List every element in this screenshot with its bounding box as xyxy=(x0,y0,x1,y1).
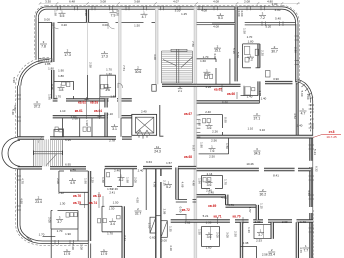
lower bath partition x62.5 xyxy=(62,118,64,137)
svg-text:3.00: 3.00 xyxy=(225,232,229,238)
wall entrance corridor left xyxy=(155,169,157,258)
svg-text:2.30: 2.30 xyxy=(282,220,288,224)
svg-text:2.58: 2.58 xyxy=(262,253,268,257)
svg-text:кв.61: кв.61 xyxy=(75,109,83,113)
room label 3/37.2 xyxy=(34,100,41,108)
svg-text:1.80: 1.80 xyxy=(248,39,254,43)
svg-text:1.50: 1.50 xyxy=(107,187,113,191)
wall exterior bottom step xyxy=(88,241,90,258)
wall y204.9 xyxy=(226,205,257,207)
svg-text:17.3: 17.3 xyxy=(101,54,108,58)
svg-text:1.50: 1.50 xyxy=(225,143,229,149)
svg-text:3.3: 3.3 xyxy=(205,73,210,77)
room label 2/25.4 xyxy=(268,248,275,256)
svg-text:2.53: 2.53 xyxy=(256,238,262,242)
svg-text:5.3: 5.3 xyxy=(218,16,223,20)
room 15.1 right wall low xyxy=(229,59,231,84)
svg-text:2.20: 2.20 xyxy=(260,50,264,56)
svg-text:17.3: 17.3 xyxy=(64,53,71,57)
door quarter-arc room17.3-1 xyxy=(52,22,59,29)
svg-text:4.9: 4.9 xyxy=(70,181,75,185)
shaft hatch right of spine xyxy=(197,115,201,137)
shaft box x258 wall xyxy=(255,49,259,55)
room label 1/3.4 xyxy=(109,218,116,226)
svg-text:7.6: 7.6 xyxy=(210,149,215,153)
svg-text:1.25: 1.25 xyxy=(181,12,187,16)
wall exterior left mid xyxy=(18,86,20,138)
room label 1/4.9 xyxy=(69,177,76,185)
dashed contour left lower xyxy=(16,169,89,246)
svg-text:1.70: 1.70 xyxy=(107,232,113,236)
svg-text:1.57: 1.57 xyxy=(166,161,172,165)
svg-text:1.98: 1.98 xyxy=(126,177,130,183)
wall exterior bottom-left corner arc xyxy=(18,225,43,244)
door quarter-arc corridor xyxy=(39,137,45,143)
svg-text:2.40: 2.40 xyxy=(141,109,147,113)
wall y200 entrance hall xyxy=(176,200,196,203)
svg-text:5.90: 5.90 xyxy=(12,77,16,83)
loggia hatch band xyxy=(38,59,52,62)
svg-text:2.26: 2.26 xyxy=(212,130,218,134)
fixtures bath room30.7 xyxy=(245,87,255,95)
svg-text:1.68: 1.68 xyxy=(258,90,262,96)
svg-text:3.6: 3.6 xyxy=(105,88,110,92)
svg-text:5.00: 5.00 xyxy=(44,18,50,22)
room label 3/34.3 xyxy=(254,147,261,155)
svg-text:17.9: 17.9 xyxy=(64,252,71,256)
svg-text:2.00: 2.00 xyxy=(47,217,51,223)
bath box bottom-2 xyxy=(240,246,256,258)
wall stairwell left xyxy=(156,8,158,84)
bath box room30.7 xyxy=(243,86,245,96)
svg-text:1.55: 1.55 xyxy=(147,223,151,229)
svg-text:1.60: 1.60 xyxy=(200,59,206,63)
svg-text:4.00: 4.00 xyxy=(275,8,281,12)
svg-text:4.48: 4.48 xyxy=(191,180,195,186)
wall vert x258 upper xyxy=(258,44,260,96)
bath box B walls xyxy=(100,75,116,97)
svg-text:1.98: 1.98 xyxy=(85,120,89,126)
svg-text:4.7: 4.7 xyxy=(142,15,147,19)
door quarter-arc room17.3-2 left xyxy=(108,22,115,29)
svg-text:9.63: 9.63 xyxy=(146,160,152,164)
wall hall top y84 xyxy=(197,84,241,86)
dashed contour top-right xyxy=(282,5,299,81)
svg-text:30.2: 30.2 xyxy=(259,192,266,196)
window ticks left wall xyxy=(17,95,21,210)
svg-text:кв.68: кв.68 xyxy=(184,155,192,159)
wall exterior right gray pier upper xyxy=(296,24,298,81)
stair window left xyxy=(152,85,156,92)
svg-text:2.14: 2.14 xyxy=(207,172,213,176)
svg-text:30.7: 30.7 xyxy=(271,49,278,53)
svg-text:5.40: 5.40 xyxy=(275,17,281,21)
svg-text:2.00: 2.00 xyxy=(134,177,138,183)
wall x240 bottom xyxy=(240,222,242,258)
red leader ticks кв65-66 xyxy=(222,84,237,99)
entrance ramp outer xyxy=(150,217,156,233)
svg-text:5.2: 5.2 xyxy=(166,185,171,189)
svg-text:4.07: 4.07 xyxy=(173,0,179,4)
svg-text:1.50: 1.50 xyxy=(134,23,140,27)
svg-text:1.70: 1.70 xyxy=(57,229,63,233)
svg-text:кв.65: кв.65 xyxy=(214,87,222,91)
svg-text:0.90: 0.90 xyxy=(116,10,120,16)
svg-text:4.61: 4.61 xyxy=(221,195,227,199)
svg-text:4.08: 4.08 xyxy=(213,25,219,29)
svg-text:1.85: 1.85 xyxy=(45,62,51,66)
wall x271 bottom xyxy=(271,222,273,239)
svg-text:2.00: 2.00 xyxy=(215,232,219,238)
svg-text:1.10: 1.10 xyxy=(60,109,66,113)
svg-text:1.96: 1.96 xyxy=(197,178,201,184)
wall vert x175.8 vestibule xyxy=(176,168,179,200)
svg-text:15.1: 15.1 xyxy=(214,49,221,53)
wall x146 room32.7 right xyxy=(145,169,147,210)
bath 3.3 top-right box xyxy=(197,59,216,84)
svg-text:1.90: 1.90 xyxy=(58,69,64,73)
svg-text:2.40: 2.40 xyxy=(70,167,76,171)
svg-text:2.00: 2.00 xyxy=(272,2,278,6)
wall corridor top right-block xyxy=(197,101,260,103)
svg-text:7.51: 7.51 xyxy=(122,65,126,71)
svg-text:2.50: 2.50 xyxy=(234,231,238,237)
wall stairwell bottom xyxy=(162,84,197,86)
svg-text:кв.62: кв.62 xyxy=(78,101,86,105)
svg-text:кв.75: кв.75 xyxy=(73,201,81,205)
svg-text:1.50: 1.50 xyxy=(109,207,115,211)
bath box A walls xyxy=(54,81,74,98)
svg-text:1.90: 1.90 xyxy=(84,178,88,184)
svg-text:2.78: 2.78 xyxy=(109,139,115,143)
elevator shaft xyxy=(132,114,157,138)
room label 2/30.2 xyxy=(259,188,266,196)
fixture room 4.2 xyxy=(107,173,110,177)
wall exterior top xyxy=(47,7,283,9)
room label 1/3.6 xyxy=(206,122,213,130)
red leader ticks кв73-74 xyxy=(85,192,104,208)
svg-text:1.40: 1.40 xyxy=(247,95,253,99)
red leader ticks corridor xyxy=(85,97,102,119)
svg-text:7.2: 7.2 xyxy=(248,58,253,62)
room label 2/30.7 xyxy=(271,45,278,53)
svg-text:2.1: 2.1 xyxy=(178,89,182,93)
svg-text:1.80: 1.80 xyxy=(48,67,54,71)
room label 1/3.3 xyxy=(203,68,210,76)
stair-left vestibule box xyxy=(54,130,64,137)
svg-text:1.08: 1.08 xyxy=(80,244,84,250)
wall room30.7 bottom xyxy=(265,81,297,83)
svg-text:3.6: 3.6 xyxy=(207,183,212,187)
svg-text:2.58: 2.58 xyxy=(88,62,92,68)
fixtures bath 3.4 xyxy=(98,216,121,223)
svg-text:4.50: 4.50 xyxy=(136,197,140,203)
svg-text:3.6: 3.6 xyxy=(207,126,212,130)
svg-text:3.10: 3.10 xyxy=(259,128,265,132)
svg-text:кв.69: кв.69 xyxy=(208,204,216,208)
bay arc mullion ticks xyxy=(298,81,315,126)
wall vert x118.5-121 xyxy=(119,9,122,118)
svg-text:37.1: 37.1 xyxy=(253,117,260,121)
bath 3.7 box xyxy=(51,211,78,258)
svg-text:1.10: 1.10 xyxy=(107,112,113,116)
svg-text:6.32: 6.32 xyxy=(315,166,319,172)
wall corridor left top xyxy=(53,99,132,101)
svg-text:6.95: 6.95 xyxy=(65,138,71,142)
svg-text:0.60: 0.60 xyxy=(150,236,156,240)
room label 1/3.1 xyxy=(111,123,118,131)
svg-text:24.3: 24.3 xyxy=(154,149,161,153)
wall stair bottom y167 xyxy=(18,167,86,169)
wall exterior left upper xyxy=(36,17,38,59)
room 4.9 box xyxy=(59,171,88,192)
svg-text:11: 11 xyxy=(156,145,159,149)
wall y204 hall xyxy=(79,204,88,206)
svg-text:25.4: 25.4 xyxy=(268,253,275,257)
wall exterior top-left corner arc xyxy=(36,7,47,17)
svg-text:3.00: 3.00 xyxy=(102,23,108,27)
svg-text:10.46: 10.46 xyxy=(246,162,254,166)
svg-text:1.90: 1.90 xyxy=(65,232,71,236)
svg-text:3.08: 3.08 xyxy=(100,0,106,4)
svg-text:6.48: 6.48 xyxy=(69,0,75,4)
wall exterior right upper xyxy=(296,23,298,82)
wall stair-lobby y137 xyxy=(18,137,132,139)
svg-text:2.41: 2.41 xyxy=(109,191,115,195)
svg-text:1.36: 1.36 xyxy=(247,227,251,233)
room label 1/7.2 xyxy=(247,53,254,61)
svg-text:кв.76: кв.76 xyxy=(73,194,81,198)
room label 1/7.7 xyxy=(302,244,309,252)
svg-text:10-7-25: 10-7-25 xyxy=(326,135,337,139)
svg-text:2.08: 2.08 xyxy=(244,0,250,4)
svg-text:3.7: 3.7 xyxy=(258,233,263,237)
svg-text:5.90: 5.90 xyxy=(300,91,304,97)
svg-text:0.90: 0.90 xyxy=(213,54,217,60)
svg-text:3.68: 3.68 xyxy=(134,0,140,4)
svg-text:7.31: 7.31 xyxy=(123,235,127,241)
svg-text:1.80: 1.80 xyxy=(200,142,204,148)
svg-text:2.36: 2.36 xyxy=(112,187,118,191)
svg-text:7.00: 7.00 xyxy=(71,244,75,250)
svg-text:1.15: 1.15 xyxy=(260,203,264,209)
svg-text:0.00: 0.00 xyxy=(161,239,167,243)
svg-text:кв.74: кв.74 xyxy=(89,201,97,205)
svg-text:4.70: 4.70 xyxy=(21,178,25,184)
fixtures bath A xyxy=(62,82,70,87)
room label 2/32.7 xyxy=(135,207,142,215)
hall walls y194.6 block xyxy=(197,195,226,197)
svg-text:8.41: 8.41 xyxy=(273,174,279,178)
svg-text:эт.8: эт.8 xyxy=(329,130,335,134)
room label 11/24.3 xyxy=(154,145,161,153)
svg-text:2.46: 2.46 xyxy=(114,169,120,173)
svg-text:3.90: 3.90 xyxy=(306,94,310,100)
room label 3/37.1 xyxy=(253,112,260,120)
svg-text:5.21: 5.21 xyxy=(203,214,209,218)
window ticks top wall xyxy=(58,6,265,10)
svg-text:1.98: 1.98 xyxy=(54,10,58,16)
wall exterior bay arc xyxy=(295,80,313,102)
svg-text:1.58: 1.58 xyxy=(243,28,247,34)
room label 1/7.9 xyxy=(110,9,117,17)
staircase upper (flights with treads) xyxy=(162,49,193,83)
svg-text:5.20: 5.20 xyxy=(265,24,271,28)
svg-text:7.9: 7.9 xyxy=(111,13,116,17)
svg-text:1.35: 1.35 xyxy=(168,226,172,232)
room label 1/3.6 xyxy=(206,231,213,239)
window ticks right wall xyxy=(295,36,314,232)
svg-text:3.30: 3.30 xyxy=(45,0,51,4)
svg-text:3.7: 3.7 xyxy=(57,220,62,224)
bath 3.6 bottom box xyxy=(202,227,220,247)
wall mid right-block xyxy=(197,135,313,138)
room 4.2 box xyxy=(105,169,133,187)
wall vert x52.7 left block xyxy=(52,22,54,98)
svg-text:5.90: 5.90 xyxy=(222,101,228,105)
floor stamp эт.8 xyxy=(313,130,341,139)
svg-text:2.56: 2.56 xyxy=(211,139,217,143)
staircase left (flights with treads) xyxy=(34,139,63,166)
room label 1/17.9 xyxy=(101,248,108,256)
wall corridor bottom right-block xyxy=(197,168,311,171)
bath B door arc xyxy=(118,83,123,88)
svg-text:32.7: 32.7 xyxy=(135,212,142,216)
svg-text:3.1: 3.1 xyxy=(112,127,117,131)
svg-text:1.70: 1.70 xyxy=(223,179,227,185)
window ticks bl-arc xyxy=(27,237,33,243)
room label 1/5.5 xyxy=(59,9,66,17)
room label 1/17.9 xyxy=(64,248,71,256)
svg-text:кв.64: кв.64 xyxy=(94,109,102,113)
svg-text:3.20: 3.20 xyxy=(61,23,67,27)
dashed contour top-left xyxy=(16,5,49,137)
window ticks bottom wall xyxy=(55,21,283,244)
room label 2/17.3 xyxy=(64,49,71,57)
svg-text:4.52: 4.52 xyxy=(293,113,297,119)
svg-text:1.50: 1.50 xyxy=(113,201,119,205)
fixtures bath 3.7 xyxy=(66,213,77,218)
wall exterior bay right xyxy=(310,101,313,258)
svg-text:2.68: 2.68 xyxy=(72,117,78,121)
svg-text:1.60: 1.60 xyxy=(206,246,212,250)
wall exterior right window wall xyxy=(245,22,296,25)
wall exterior bottom left xyxy=(43,241,89,244)
wall bath top y95.6 xyxy=(241,95,258,97)
room label 3/7.2 xyxy=(259,12,266,20)
svg-text:2.36: 2.36 xyxy=(293,47,297,53)
bath 3.6 low box xyxy=(202,176,223,189)
elec panel symbol xyxy=(266,71,271,78)
wall x122 vert xyxy=(122,206,124,258)
wall vert x236 top xyxy=(235,7,237,82)
room label 3/7.8 xyxy=(40,40,47,48)
svg-text:37.2: 37.2 xyxy=(34,105,41,109)
elevator vent triangles xyxy=(137,130,150,135)
fixtures bath top-right xyxy=(205,74,213,79)
svg-text:7.2: 7.2 xyxy=(260,16,265,20)
wall vert x225.5 xyxy=(226,195,228,205)
wall y24.9 rooms top-center xyxy=(197,23,235,25)
svg-text:1.40: 1.40 xyxy=(300,220,306,224)
svg-text:1.30: 1.30 xyxy=(60,201,66,205)
room label 2/23.4 xyxy=(35,195,42,203)
svg-text:4.2: 4.2 xyxy=(119,178,124,182)
svg-text:4.10: 4.10 xyxy=(169,245,173,251)
svg-text:4.76: 4.76 xyxy=(228,203,234,207)
stair level mark xyxy=(178,85,183,93)
kitchen box xyxy=(254,225,272,239)
bath 3.4 box xyxy=(102,206,122,232)
svg-text:2.30: 2.30 xyxy=(255,220,261,224)
svg-text:2.50: 2.50 xyxy=(209,155,215,159)
fixtures room 7.2 xyxy=(244,46,250,62)
wall x296 bottom xyxy=(296,222,298,258)
room label 1/5.2 xyxy=(165,181,172,189)
svg-text:6.95: 6.95 xyxy=(65,162,71,166)
wall vert x259.4 stub xyxy=(258,96,260,104)
svg-text:3.6: 3.6 xyxy=(207,235,212,239)
svg-text:3.8: 3.8 xyxy=(59,88,64,92)
svg-text:34.3: 34.3 xyxy=(254,152,261,156)
svg-text:2.40: 2.40 xyxy=(205,110,211,114)
svg-text:1.70: 1.70 xyxy=(106,68,112,72)
fixtures bath B xyxy=(101,84,108,89)
room 3.1 right wall xyxy=(120,118,122,137)
room label 3/3.7 xyxy=(56,216,63,224)
svg-text:7.50: 7.50 xyxy=(191,41,195,47)
svg-text:0.25: 0.25 xyxy=(50,84,54,90)
svg-text:4.56: 4.56 xyxy=(152,182,156,188)
svg-text:3.00: 3.00 xyxy=(153,54,157,60)
svg-text:1.40: 1.40 xyxy=(297,124,303,128)
svg-text:17.9: 17.9 xyxy=(101,252,108,256)
wall vert x256 xyxy=(256,205,258,220)
svg-text:кв.70: кв.70 xyxy=(233,214,241,218)
entrance ramp inner xyxy=(161,221,167,238)
svg-text:кв.63: кв.63 xyxy=(90,101,98,105)
svg-text:1.60: 1.60 xyxy=(106,72,112,76)
wall corridor left bottom xyxy=(53,116,132,118)
room label 1/5.3 xyxy=(217,12,224,20)
wall spine vertical xyxy=(194,7,196,258)
wall right main lower vertical xyxy=(309,135,313,258)
svg-text:1.50: 1.50 xyxy=(197,229,201,235)
wall top block sill y22.4 xyxy=(38,21,155,23)
svg-text:4.26: 4.26 xyxy=(205,85,211,89)
svg-text:2.29: 2.29 xyxy=(91,177,95,183)
svg-text:1.56: 1.56 xyxy=(206,220,212,224)
svg-text:2.40: 2.40 xyxy=(138,168,144,172)
room label 1/3.7 xyxy=(257,229,264,237)
svg-text:1.90: 1.90 xyxy=(198,120,202,126)
svg-text:кв.67: кв.67 xyxy=(184,112,192,116)
svg-text:2.00: 2.00 xyxy=(56,178,60,184)
svg-text:3.90: 3.90 xyxy=(273,77,279,81)
svg-text:5.66: 5.66 xyxy=(236,52,240,58)
dashed contour top xyxy=(47,4,283,6)
svg-text:0.90: 0.90 xyxy=(84,10,88,16)
wall vert x104.9 lobby xyxy=(105,99,107,137)
lower bath partition x79.7 xyxy=(79,118,81,137)
svg-text:5.23: 5.23 xyxy=(313,149,317,155)
stair-left rail ticks xyxy=(34,151,63,156)
svg-text:3.20: 3.20 xyxy=(175,9,181,13)
wall bottom main right-block xyxy=(171,220,313,223)
svg-text:1.57: 1.57 xyxy=(248,207,252,213)
svg-text:30.6: 30.6 xyxy=(135,70,142,74)
svg-text:4.90: 4.90 xyxy=(19,198,23,204)
